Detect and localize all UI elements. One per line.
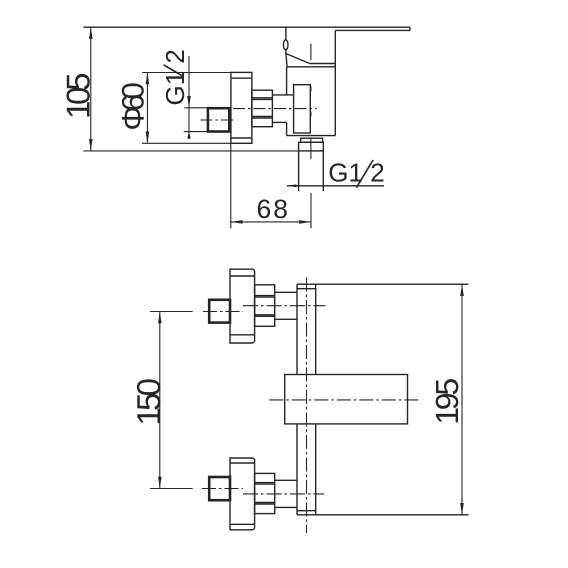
body left edge lower [286, 122, 288, 135]
G1/2 top arrow (points down to top ext) [187, 96, 191, 108]
nut facet line upper pair [252, 97, 273, 99]
195 bottom arrow [460, 503, 464, 515]
body bar bottom edge + 195 bottom extension [297, 514, 469, 516]
inlet axis centerline [233, 108, 317, 110]
68 dimension line [231, 221, 311, 223]
outlet square [299, 142, 324, 151]
150 bottom arrow [158, 477, 162, 489]
outlet collar [301, 138, 323, 142]
handle base short slant [286, 54, 287, 67]
spout horizontal centerline [269, 399, 421, 401]
G1/2 bottom arrow (points up to bottom ext) [187, 132, 191, 139]
phi60 top extension line [142, 72, 231, 74]
svg-text:68: 68 [257, 194, 289, 224]
svg-text:150: 150 [130, 378, 167, 426]
slash of rotated G1/2 [164, 65, 184, 77]
68 left extension line [230, 143, 232, 228]
nut facet line lower pair [252, 115, 273, 117]
G1/2 leader underline [287, 185, 384, 187]
svg-text:G12: G12 [160, 49, 190, 105]
bottom nut facet pair lower [255, 502, 275, 504]
svg-text:Φ60: Φ60 [115, 82, 150, 131]
lever handle top edge + 105 top extension line [83, 26, 410, 28]
cap top edge [310, 63, 336, 65]
body bar left edge lower [296, 424, 298, 515]
body top edge [287, 66, 335, 68]
nipple centerline [201, 119, 234, 121]
svg-text:G12: G12 [328, 158, 384, 188]
phi60 dimension line [146, 73, 148, 144]
bottom nipple centerline + 150 bottom extension [202, 488, 243, 490]
195 dimension line [461, 284, 463, 515]
bottom tube bottom [275, 506, 297, 508]
top nut facet pair upper [255, 295, 275, 297]
G1/2 bottom extension line [184, 131, 208, 133]
150 bottom extension line [150, 488, 193, 490]
top escutcheon upper lip [230, 275, 255, 277]
top hex nut front [255, 285, 275, 327]
handle left vertical [285, 27, 287, 40]
handle left vertical lower [285, 50, 287, 54]
150 dimension line [159, 312, 161, 489]
lever handle bottom edge [335, 29, 410, 31]
bottom tube top [275, 479, 297, 481]
escutcheon bottom lip [231, 137, 252, 139]
inlet tube top [272, 94, 293, 96]
105 bottom extension line [83, 150, 298, 152]
svg-text:105: 105 [59, 73, 96, 120]
body right edge [334, 30, 336, 135]
top nut facet pair lower [255, 314, 275, 316]
handle pivot ellipse [283, 40, 288, 50]
body bottom edge [287, 135, 336, 137]
68 right arrow [299, 220, 311, 224]
handle base slant to cap [286, 54, 310, 64]
bar top cap inner line [297, 288, 316, 290]
escutcheon side view [231, 72, 252, 143]
top tube top [275, 291, 297, 293]
G1/2 leader arrowhead [287, 184, 297, 187]
body vertical centerline upper dash [310, 44, 312, 61]
svg-text:195: 195 [429, 378, 465, 425]
top inlet axis centerline [243, 305, 326, 307]
bottom nipple square [209, 477, 230, 500]
body left edge upper [286, 67, 288, 95]
195 top arrow [460, 284, 464, 296]
bar bottom cap inner line [297, 510, 316, 512]
slash of horizontal G1/2 [356, 160, 373, 188]
body inner square [294, 85, 311, 133]
105 dimension line [90, 27, 92, 151]
body vertical centerline inner dash 2 [310, 112, 312, 117]
G1/2 top dimension line [188, 56, 190, 139]
bottom escutcheon front view [230, 458, 255, 530]
150 top extension line [150, 311, 193, 313]
bottom hex nut front [255, 473, 275, 513]
105 top arrow [89, 27, 93, 39]
center spout rectangle [285, 375, 408, 424]
phi60 top arrow [146, 73, 150, 85]
150 top arrow [158, 312, 162, 324]
bottom nut facet pair upper [255, 482, 275, 484]
top nipple square [209, 300, 230, 323]
wall nipple square side view [208, 108, 229, 131]
hex nut side view [252, 90, 273, 127]
top escutcheon lower lip [230, 334, 255, 336]
68 right extension line [310, 193, 312, 229]
body bar top edge + 195 top extension [297, 283, 469, 285]
bar vertical centerline [306, 278, 308, 534]
inlet tube bottom [272, 121, 286, 123]
top nipple centerline + 150 top extension [203, 311, 243, 313]
body bar right edge upper [315, 284, 317, 374]
lever handle tip [409, 27, 411, 30]
top escutcheon front view [230, 269, 255, 343]
bottom escutcheon lower lip [230, 523, 255, 525]
phi60 bottom extension line [142, 142, 231, 144]
bottom inlet axis centerline [243, 493, 324, 495]
hose nipple left side [298, 151, 300, 191]
G1/2 top extension line [184, 107, 208, 109]
escutcheon top lip [231, 77, 252, 79]
body bar left edge upper [296, 284, 298, 374]
68 left arrow [231, 220, 243, 224]
body bar right edge lower [315, 424, 317, 515]
phi60 bottom arrow [146, 132, 150, 144]
bottom escutcheon upper lip [230, 462, 255, 464]
body vertical centerline inner dash 1 [310, 87, 312, 92]
105 bottom arrow [89, 139, 93, 151]
hose nipple right side [322, 151, 324, 191]
outlet centerline tick [310, 139, 312, 160]
top tube bottom [275, 318, 297, 320]
